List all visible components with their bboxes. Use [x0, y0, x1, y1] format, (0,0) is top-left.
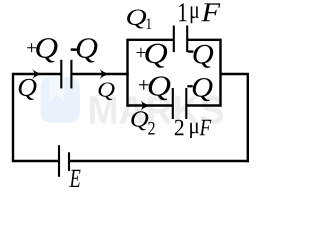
label Q1 [127, 10, 151, 30]
wire parallel-block left vertical [126, 39, 128, 107]
label E (battery emf) [69, 170, 80, 187]
wire bottom left [12, 160, 59, 162]
wire middle horizontal [71, 73, 128, 75]
label Q (left wire charge) [19, 79, 37, 100]
label -Q (capacitor Q2) [187, 78, 212, 101]
arrow after capacitor C1 [99, 68, 109, 80]
watermark text [90, 96, 223, 124]
wire parallel-block right vertical [219, 39, 221, 107]
capacitor Q1 left plate [173, 26, 175, 53]
label 1 uF [179, 3, 220, 23]
capacitor Q2 right plate [185, 88, 187, 119]
capacitor C1 left plate [60, 60, 62, 89]
label 2 uF [175, 120, 212, 138]
wire top branch right [187, 39, 220, 41]
label +Q (capacitor Q2) [139, 76, 171, 100]
wire right vertical [247, 74, 249, 162]
capacitor C1 right plate [70, 60, 72, 89]
arrow on left wire [32, 68, 42, 80]
capacitor Q1 right plate [186, 26, 188, 53]
wire bottom branch left [128, 104, 173, 106]
arrow on bottom branch [140, 100, 150, 112]
wire top-left horizontal [13, 73, 61, 75]
wire top branch left [128, 39, 174, 41]
wire right connector [221, 73, 250, 75]
label Q2 [131, 111, 154, 134]
label -Q (capacitor Q1) [188, 45, 213, 68]
wire bottom right [69, 160, 249, 162]
wire left vertical [12, 73, 14, 161]
capacitor Q2 left plate [172, 88, 174, 119]
label Q (right of C1 charge) [99, 83, 115, 101]
battery E long plate [58, 145, 60, 177]
label -Q (capacitor C1) [71, 38, 98, 62]
battery E short plate [68, 152, 70, 171]
watermark logo [41, 77, 81, 123]
label +Q (capacitor Q1) [137, 44, 168, 68]
wire bottom branch right [186, 104, 220, 106]
label +Q (capacitor C1) [27, 38, 57, 62]
